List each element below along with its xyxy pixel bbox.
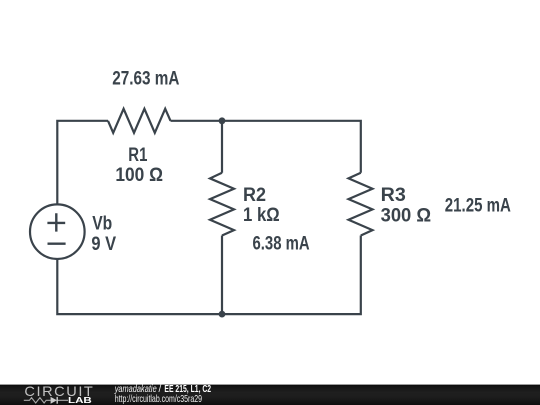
svg-text:R2: R2 (243, 185, 266, 206)
svg-text:300 Ω: 300 Ω (381, 206, 432, 227)
svg-text:LAB: LAB (68, 396, 92, 405)
voltage source Vb circle (30, 204, 85, 259)
minus sign of source (48, 242, 66, 244)
node junction dot bottom (219, 311, 226, 318)
wire: main outer loop (left vertical, top wire, right vertical, bottom wire) (57, 121, 108, 205)
logo resistor squiggle and diode (24, 398, 68, 403)
resistor R2 (vertical zigzag) (210, 173, 234, 236)
svg-text:21.25 mA: 21.25 mA (445, 196, 511, 217)
svg-text:R1: R1 (128, 145, 147, 166)
plus sign of source (47, 213, 65, 231)
svg-text:http://circuitlab.com/c35ra29: http://circuitlab.com/c35ra29 (115, 394, 202, 405)
resistor R1 (horizontal zigzag) (108, 109, 171, 133)
svg-text:Vb: Vb (92, 214, 112, 235)
node junction dot top (R1/R2/R3 net) (219, 117, 226, 124)
logo diode bar (56, 397, 58, 404)
svg-text:100 Ω: 100 Ω (115, 165, 163, 186)
wire: R2 stem top (221, 121, 223, 173)
svg-text:R3: R3 (381, 185, 406, 206)
svg-text:27.63 mA: 27.63 mA (112, 68, 179, 89)
svg-text:9 V: 9 V (91, 234, 116, 255)
wire: right vertical lower, bottom wire, up to source - terminal (57, 236, 361, 315)
svg-text:1 kΩ: 1 kΩ (243, 205, 280, 226)
wire: R2 stem bottom (221, 236, 223, 315)
svg-text:6.38 mA: 6.38 mA (253, 233, 310, 254)
resistor R3 (vertical zigzag) (349, 173, 373, 236)
logo diode triangle (51, 397, 57, 404)
footer bar (0, 385, 540, 405)
wire: top horizontal from R1 to top-right corner, down to R3 (171, 121, 361, 173)
